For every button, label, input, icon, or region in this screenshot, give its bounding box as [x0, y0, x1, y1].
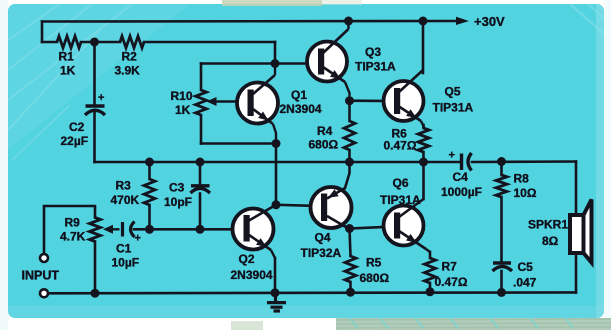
capacitor C4 (electrolytic, horizontal) — [449, 150, 472, 171]
wire: left vertical from rail to R1 — [41, 22, 44, 43]
label R3 — [111, 179, 140, 208]
node: R9 bottom — [91, 289, 100, 298]
capacitor C2 — [85, 92, 105, 115]
label R8 — [514, 172, 537, 201]
node: Q4 collector / Q6 base / R5 — [345, 224, 354, 233]
potentiometer R9 — [90, 218, 101, 242]
node: R4 bottom / Q4 emitter — [345, 158, 354, 167]
transistor Q6 — [384, 199, 431, 252]
label C1 — [112, 242, 140, 270]
label R9 — [60, 216, 86, 244]
svg-text:10µF: 10µF — [112, 256, 140, 270]
svg-text:Q1: Q1 — [291, 88, 307, 102]
wire: Q2 emitter column — [274, 258, 277, 293]
resistor R6 — [418, 128, 429, 152]
svg-text:C3: C3 — [169, 181, 185, 195]
resistor R4 — [344, 121, 355, 150]
label Q2 — [231, 252, 273, 282]
svg-text:+: + — [98, 92, 104, 104]
node: C5 bottom — [497, 288, 506, 297]
+30V arrow — [456, 17, 469, 25]
svg-text:C2: C2 — [69, 120, 85, 134]
label C4 — [441, 170, 482, 199]
node: R3 top — [145, 158, 154, 167]
label C2 — [61, 120, 89, 148]
svg-text:INPUT: INPUT — [22, 269, 60, 283]
svg-text:680Ω: 680Ω — [309, 138, 339, 152]
wire: R7 bottom — [429, 283, 432, 292]
wire: input upper to R9 top — [44, 206, 95, 254]
capacitor C1 (electrolytic, horizontal) — [123, 222, 141, 245]
label INPUT — [22, 269, 60, 283]
node: R7 bottom — [426, 287, 435, 296]
svg-text:Q5: Q5 — [445, 85, 461, 99]
wire: Q6 base — [350, 227, 385, 229]
resistor R8 — [496, 175, 507, 197]
svg-text:22µF: 22µF — [61, 134, 89, 148]
capacitor C3 — [191, 186, 211, 193]
svg-text:R4: R4 — [317, 124, 333, 138]
svg-text:TIP32A: TIP32A — [301, 246, 342, 260]
node: R1/R2/C2 — [90, 38, 99, 47]
wire: R9 bottom — [94, 242, 97, 294]
label R2 — [115, 50, 141, 78]
svg-text:R7: R7 — [442, 260, 458, 274]
label Q6 — [380, 176, 421, 207]
scan streak top — [222, 0, 362, 6]
wire: Q1 emitter column down to Q4 base node — [275, 144, 278, 205]
node: C3 top — [196, 158, 205, 167]
node: R8 top — [497, 157, 506, 166]
svg-text:SPKR1: SPKR1 — [528, 218, 568, 232]
svg-text:1000µF: 1000µF — [441, 185, 482, 199]
wire: R1/R2 row — [42, 41, 57, 44]
svg-text:R9: R9 — [65, 216, 81, 230]
R10 wiper arrow — [207, 97, 250, 106]
R9 wiper arrow from C1 — [103, 225, 120, 234]
node: Q4 base tee — [272, 200, 281, 209]
wire: Q5/R6 column — [422, 21, 425, 73]
wire: C2 branch — [93, 42, 96, 104]
svg-text:R5: R5 — [366, 256, 382, 270]
svg-text:R10: R10 — [171, 89, 193, 103]
wire: speaker loop — [575, 162, 578, 293]
wire: Q1 emitter row — [201, 142, 276, 145]
transistor Q2 — [233, 205, 277, 258]
wire: Q6 emitter to R7 — [429, 252, 432, 258]
node: Q5 base / R4 top — [345, 96, 354, 105]
node: R6 bottom / Q6 collector — [419, 158, 428, 167]
label C5 — [513, 260, 537, 290]
node: Q3 base / R10 / Q1 collector — [271, 59, 280, 68]
resistor R7 — [425, 258, 436, 283]
transistor Q4 (PNP) — [311, 187, 352, 228]
svg-text:10pF: 10pF — [164, 195, 192, 209]
wire: Q4 base — [276, 205, 311, 206]
node: Q3 collector on rail — [344, 17, 353, 26]
speaker SPKR1 — [570, 200, 592, 263]
resistor R1 — [57, 36, 81, 48]
svg-text:R2: R2 — [122, 50, 138, 64]
wire: C3 column — [199, 162, 202, 183]
resistor R3 — [144, 179, 155, 205]
svg-text:10Ω: 10Ω — [514, 186, 537, 200]
wire: R10 body column — [200, 64, 203, 91]
wire: mid rail (output node) — [95, 161, 460, 164]
svg-text:Q4: Q4 — [315, 231, 331, 245]
transistor Q1 — [237, 64, 278, 144]
wire: R2 drop to Q3 base node — [274, 42, 277, 64]
svg-text:8Ω: 8Ω — [542, 234, 559, 248]
node: C3 bottom on base line — [196, 225, 205, 234]
svg-text:2N3904: 2N3904 — [231, 268, 273, 282]
svg-text:R8: R8 — [514, 172, 530, 186]
page margin tint — [0, 0, 8, 330]
wire: base line R10-top to Q3 base — [201, 62, 308, 65]
wire: R4 column — [348, 101, 351, 121]
svg-text:R1: R1 — [59, 50, 75, 64]
node: R3 bottom on base line — [145, 225, 154, 234]
svg-text:C5: C5 — [518, 260, 534, 274]
svg-text:.047: .047 — [513, 276, 537, 290]
resistor R2 — [120, 36, 144, 48]
svg-text:Q3: Q3 — [365, 45, 381, 59]
scan band bottom right — [231, 318, 611, 330]
transistor Q3 — [307, 21, 350, 101]
wire: +30V top rail — [42, 20, 457, 23]
label Q1 — [280, 88, 322, 116]
wire: C1 right to Q2 base — [134, 228, 233, 231]
label R5 — [360, 256, 390, 286]
wire: Q6 collector column — [422, 162, 425, 199]
label Q5 — [433, 85, 474, 115]
svg-text:Q2: Q2 — [239, 252, 255, 266]
svg-text:0.47Ω: 0.47Ω — [435, 275, 468, 289]
label Q3 — [355, 45, 396, 74]
label +30V — [474, 14, 505, 29]
svg-text:C1: C1 — [116, 242, 132, 256]
label R4 — [309, 124, 339, 152]
node: R5 bottom — [346, 288, 355, 297]
label R6 — [384, 127, 417, 153]
label R10 — [171, 89, 193, 117]
resistor R5 — [345, 256, 356, 282]
wire: Q5 base — [350, 99, 385, 102]
wire: R3 column — [148, 162, 151, 179]
node: Q2 emitter / ground — [271, 288, 280, 297]
wire: Q4 emitter link — [345, 162, 350, 188]
svg-text:1K: 1K — [175, 103, 191, 117]
svg-text:Q6: Q6 — [393, 176, 409, 190]
potentiometer R10 — [196, 90, 207, 115]
svg-text:+30V: +30V — [474, 14, 505, 29]
wire: R8/C5 column — [500, 162, 503, 176]
label SPKR1 — [528, 218, 568, 249]
svg-text:4.7K: 4.7K — [60, 230, 86, 244]
node: Q1 emitter — [272, 139, 281, 148]
svg-text:R3: R3 — [116, 179, 132, 193]
svg-text:3.9K: 3.9K — [115, 64, 141, 78]
label R7 — [435, 260, 468, 290]
capacitor C5 — [493, 263, 513, 271]
node: Q5 collector on rail — [419, 17, 428, 26]
input terminal lower — [40, 289, 48, 297]
transistor Q5 — [384, 70, 424, 128]
input terminal upper — [40, 254, 48, 262]
label C3 — [164, 181, 192, 210]
label Q4 — [301, 231, 342, 261]
svg-text:TIP31A: TIP31A — [355, 60, 396, 74]
svg-text:680Ω: 680Ω — [360, 271, 390, 285]
svg-text:C4: C4 — [453, 170, 469, 184]
wire: ground rail — [48, 291, 576, 294]
svg-text:+: + — [449, 150, 455, 162]
label R1 — [59, 50, 76, 78]
svg-text:TIP31A: TIP31A — [380, 193, 421, 207]
wire: R5 column — [350, 229, 351, 257]
svg-text:0.47Ω: 0.47Ω — [384, 139, 417, 153]
svg-text:1K: 1K — [60, 64, 76, 78]
svg-text:+: + — [135, 233, 141, 245]
ground — [267, 293, 286, 311]
wire: Q4 collector to node — [345, 227, 350, 229]
svg-text:TIP31A: TIP31A — [433, 101, 474, 115]
svg-text:2N3904: 2N3904 — [280, 102, 322, 116]
svg-text:470K: 470K — [111, 193, 140, 207]
